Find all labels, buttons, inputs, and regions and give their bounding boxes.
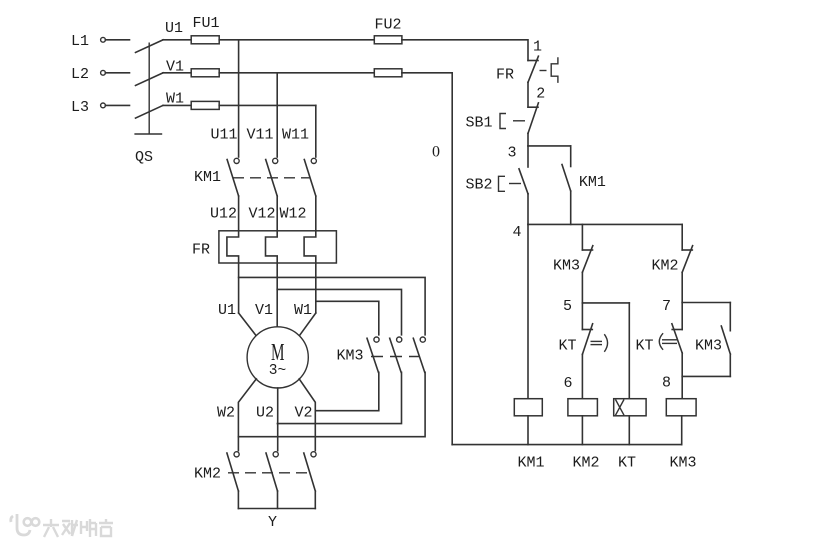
wire FU1 row3 to W11 drop xyxy=(219,104,316,106)
wire FU1 to FU2 row1 xyxy=(219,39,374,41)
node 2 xyxy=(528,82,545,107)
svg-text:W2: W2 xyxy=(217,404,235,421)
svg-text:KT: KT xyxy=(558,337,576,354)
node 4 xyxy=(512,224,682,241)
terminal L3 xyxy=(71,99,105,116)
contactor KM2 star contacts xyxy=(194,452,316,509)
svg-text:Y: Y xyxy=(268,514,277,531)
node V11 xyxy=(246,73,277,157)
coil KM3 xyxy=(666,399,696,472)
node 6 xyxy=(563,354,582,398)
switch QS xyxy=(134,40,163,166)
wire QS to FU1 row3 xyxy=(163,104,191,106)
svg-text:KM3: KM3 xyxy=(669,454,696,471)
wire KT coil branch xyxy=(628,303,630,399)
svg-text:4: 4 xyxy=(512,224,521,241)
node 3 xyxy=(507,133,570,161)
svg-text:L2: L2 xyxy=(71,66,89,83)
svg-text:W11: W11 xyxy=(282,126,309,143)
svg-text:KM2: KM2 xyxy=(651,257,678,274)
wire KM1 coil branch xyxy=(527,224,529,398)
svg-text:1: 1 xyxy=(533,38,542,55)
contact KT delayed left xyxy=(558,303,607,355)
svg-text:3~: 3~ xyxy=(269,363,286,379)
wire V2 lead xyxy=(299,379,315,451)
svg-text:KM2: KM2 xyxy=(572,454,599,471)
svg-text:V1: V1 xyxy=(255,302,273,319)
svg-text:V11: V11 xyxy=(246,126,273,143)
watermark text xyxy=(43,519,113,537)
wire 0-line vertical xyxy=(451,73,453,445)
svg-text:L3: L3 xyxy=(71,99,89,116)
terminal L1 xyxy=(71,33,105,50)
wire KM3 contact1 to V2 xyxy=(315,372,379,410)
wire FU1 to FU2 row2 xyxy=(219,72,374,74)
svg-text:U1: U1 xyxy=(165,20,183,37)
watermark logo xyxy=(11,514,40,535)
svg-text:KM1: KM1 xyxy=(579,174,606,191)
svg-text:KT: KT xyxy=(618,454,636,471)
node W11 xyxy=(282,105,316,157)
svg-text:U2: U2 xyxy=(256,404,274,421)
svg-text:KM3: KM3 xyxy=(553,257,580,274)
svg-text:M: M xyxy=(271,340,285,366)
thermal relay FR heaters xyxy=(192,196,336,327)
svg-text:KM3: KM3 xyxy=(695,337,722,354)
svg-text:SB2: SB2 xyxy=(465,176,492,193)
svg-text:6: 6 xyxy=(563,375,572,392)
node 5 xyxy=(563,272,629,315)
svg-text:U11: U11 xyxy=(210,126,237,143)
wire L2 to switch xyxy=(105,72,129,74)
contactor KM1 main contacts xyxy=(194,158,316,196)
svg-text:V12: V12 xyxy=(248,205,275,222)
wire V1 branch to KM3 contact 2 xyxy=(277,289,401,334)
wire KM3 contact3 to W2 xyxy=(238,372,425,436)
node 8 xyxy=(662,353,682,399)
svg-text:V2: V2 xyxy=(294,404,312,421)
node 7 xyxy=(662,272,730,315)
coil KM2 xyxy=(568,399,600,472)
wire FU2 to control corner row1 xyxy=(402,40,528,61)
wire U1 branch to KM3 contact 3 xyxy=(239,277,426,334)
svg-text:5: 5 xyxy=(563,298,572,315)
svg-text:7: 7 xyxy=(662,298,671,315)
wire L3 to switch xyxy=(105,104,129,106)
wire FU2 to 0-line row2 xyxy=(402,72,452,74)
svg-text:W1: W1 xyxy=(294,302,312,319)
wire L1 to switch xyxy=(105,39,129,41)
svg-text:FR: FR xyxy=(192,241,210,258)
svg-text:FU1: FU1 xyxy=(192,15,219,32)
contact KM3 aux NO xyxy=(682,303,730,377)
wire 0-line bottom rail xyxy=(452,444,682,446)
wire W2 lead xyxy=(238,379,256,451)
svg-text:2: 2 xyxy=(536,85,545,102)
svg-text:3: 3 xyxy=(507,144,516,161)
svg-text:L1: L1 xyxy=(71,33,89,50)
contact KM2 NC interlock xyxy=(651,224,692,274)
wire U1 lead to motor xyxy=(239,313,257,336)
motor M 3~ xyxy=(247,327,308,388)
svg-text:KM2: KM2 xyxy=(194,465,221,482)
svg-text:U1: U1 xyxy=(218,302,236,319)
wire U2 lead xyxy=(277,388,279,451)
wire W1 branch to KM3 contact 1 xyxy=(316,301,379,335)
svg-text:KT: KT xyxy=(635,337,653,354)
wire QS to FU1 row2 xyxy=(163,72,191,74)
svg-text:8: 8 xyxy=(662,374,671,391)
svg-text:W12: W12 xyxy=(279,205,306,222)
wire W1 lead to motor xyxy=(299,313,316,336)
svg-text:QS: QS xyxy=(135,149,153,166)
node U11 xyxy=(210,40,238,157)
pushbutton SB2 start xyxy=(465,146,528,225)
fuse FU2 xyxy=(374,16,402,76)
wire QS to FU1 row1 xyxy=(163,39,191,41)
pushbutton SB1 stop xyxy=(465,103,538,133)
contact KM3 NC interlock xyxy=(553,224,593,274)
contactor KM3 main contacts xyxy=(336,337,425,372)
thermal relay FR NC contact xyxy=(496,56,558,83)
svg-text:FU2: FU2 xyxy=(374,16,401,33)
svg-text:SB1: SB1 xyxy=(465,114,492,131)
svg-text:FR: FR xyxy=(496,66,514,83)
wire KM3 contact2 to U2 xyxy=(277,372,401,423)
svg-text:U12: U12 xyxy=(210,205,237,222)
svg-text:KM3: KM3 xyxy=(336,347,363,364)
svg-text:0: 0 xyxy=(432,144,440,161)
svg-text:KM1: KM1 xyxy=(194,169,221,186)
fuse FU1 xyxy=(191,15,219,110)
node Y star point xyxy=(238,509,315,531)
contact KM1 aux NO xyxy=(562,146,606,225)
coil KT xyxy=(614,399,646,472)
svg-text:KM1: KM1 xyxy=(517,454,544,471)
contact KT delayed right xyxy=(635,303,682,355)
coil KM1 xyxy=(514,399,544,472)
terminal L2 xyxy=(71,66,105,83)
